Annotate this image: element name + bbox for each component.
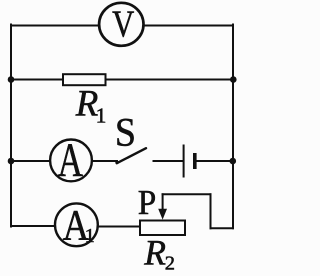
wire top-left segment [11,25,98,27]
wire wiper stem [162,194,164,211]
wire top-right segment [145,25,234,27]
rheostat R2 box [140,221,185,236]
ammeter A1 circle [55,203,98,246]
node dot left A-row junction [8,158,15,165]
svg-text:R: R [143,232,166,272]
wire A row left [11,160,50,162]
wire hook bottom [211,227,234,229]
node dot left R1 junction [8,76,15,83]
wire R1 row right [106,79,234,81]
battery long plate [183,145,185,178]
battery short plate [193,153,197,169]
ammeter A circle [50,140,92,182]
wire right bus [232,25,234,229]
wire bottom row left [11,225,55,227]
wire R1 row left [11,79,63,81]
wire battery to right bus [196,160,233,162]
svg-text:A: A [58,135,84,187]
wire A1 to R2 [98,226,140,228]
switch S lever [117,148,146,163]
wire A row to switch pivot [92,160,117,162]
wire hook up [210,194,212,228]
svg-text:1: 1 [96,104,107,128]
wire switch fixed contact [154,160,183,162]
svg-text:S: S [115,110,136,154]
svg-text:P: P [138,185,156,223]
node dot right battery junction [230,158,237,165]
svg-text:1: 1 [85,225,95,247]
voltmeter V circle [99,3,143,46]
switch pivot nub [115,161,118,164]
node dot right R1 junction [230,76,237,83]
wiper arrowhead P [158,209,167,220]
wire left bus [10,25,12,227]
wire hook left [163,193,211,195]
svg-text:2: 2 [165,253,175,275]
svg-text:V: V [112,4,134,46]
resistor R1 box [63,74,106,85]
